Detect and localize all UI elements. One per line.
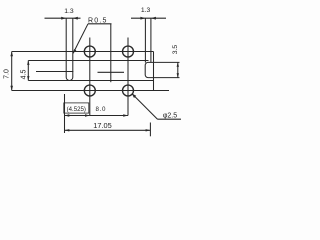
slot centerline left [36,71,73,73]
hole bottom-right [123,85,134,96]
left 1.3 arrow [61,17,66,20]
phi2.5 leader arrow [132,94,136,99]
3.5 dim line [177,62,179,77]
8.0 arrow right [123,114,128,116]
hole top-left [84,46,95,57]
hole bottom-left [84,85,95,96]
17.05 arrow left [65,129,70,131]
4.525 arrow right [85,114,90,116]
inner line top [28,60,148,62]
phi2.5 leader shelf [158,118,182,120]
4.525 arrow left [65,114,70,116]
hole column centerline left [89,38,91,116]
svg-text:R0.5: R0.5 [88,17,108,24]
left vertical slot [66,52,73,81]
right slot rounded left cap [145,62,148,77]
17.05 arrow right [146,129,151,131]
left 1.3 extension line a [65,18,67,51]
4.5 arrow up [27,61,29,65]
part outline right edge [153,52,155,91]
right 1.3 arrow b [151,17,156,20]
7.0 dim arrow up [10,52,13,57]
17.05 right extension line [149,123,151,137]
7.0 dim arrow down [10,86,13,91]
part outline bottom edge [12,90,169,92]
left 1.3 dim line [45,17,81,19]
right 1.3 dim line [131,17,166,19]
svg-text:1.3: 1.3 [141,7,151,14]
right 1.3 arrow [140,17,145,20]
part outline left edge / 7.0 dim line [11,52,13,91]
inner line bottom [28,80,153,82]
svg-text:17.05: 17.05 [93,121,112,130]
left 1.3 extension line b [72,18,74,51]
dim line 8.0 [90,115,128,117]
right slot bottom edge / 3.5 extension bottom [148,77,180,79]
dim line 4.525 [65,115,90,117]
left 1.3 arrow b [73,17,78,20]
hole column centerline right [127,38,129,116]
3.5 arrow up [177,62,179,66]
svg-text:7.0: 7.0 [4,69,11,79]
svg-text:4.5: 4.5 [21,70,28,80]
svg-text:8.0: 8.0 [95,106,106,113]
bottom left extension line [64,94,66,133]
R0.5 leader arrow [73,49,76,53]
4.5 arrow down [27,76,29,80]
svg-text:(4.525): (4.525) [67,106,86,113]
svg-text:φ2.5: φ2.5 [163,113,177,120]
R0.5 leader shelf [88,23,112,25]
17.05 dim line [65,129,151,131]
right slot top edge / 3.5 extension top [148,61,180,63]
right 1.3 extension line a [144,18,146,62]
hole top-right [123,46,134,57]
3.5 arrow down [177,73,179,77]
center cross horizontal [98,71,125,73]
svg-text:1.3: 1.3 [64,8,74,15]
R0.5 leader line [73,24,88,54]
box around 4.525 [64,103,89,113]
center cross vertical [110,24,112,82]
part outline top edge [12,51,154,53]
right 1.3 extension line b [150,18,152,62]
svg-text:3.5: 3.5 [172,45,179,55]
phi2.5 leader diagonal [132,94,158,120]
4.5 dim line [27,61,29,81]
